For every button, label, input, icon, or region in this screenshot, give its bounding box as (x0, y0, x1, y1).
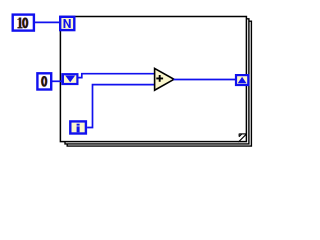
left shift register (down arrow) (61, 73, 78, 85)
wire: constant 10 to N terminal (35, 21, 61, 23)
add function (triangle with plus) (155, 68, 174, 90)
numeric constant 0 (36, 72, 52, 91)
for-loop page 3 border (stacked frame) (67, 21, 251, 146)
for-loop main frame (60, 17, 246, 142)
right shift register (up arrow) (235, 74, 250, 86)
wire: constant 0 to left shift register (51, 80, 63, 82)
loop count terminal N (59, 16, 76, 32)
numeric constant 10 (12, 13, 36, 31)
for-loop page 2 border (stacked frame) (65, 19, 249, 144)
folded-corner glyph (bottom-right dog-ear) (238, 134, 246, 143)
wire: add output to right shift register (174, 79, 237, 81)
wire: i terminal to add bottom input (87, 85, 154, 128)
wire: shift register to add top input (78, 74, 154, 78)
iteration terminal i (69, 120, 87, 135)
